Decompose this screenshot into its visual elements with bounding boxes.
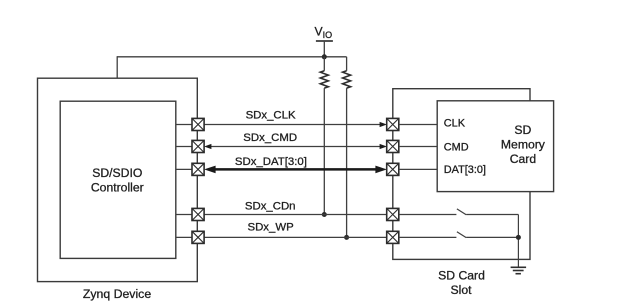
svg-text:SDx_CMD: SDx_CMD [243, 132, 297, 144]
resistor R1 (pull-up on SDx_CDn) [320, 71, 328, 88]
IO pad SDx_CMD (Zynq side) [192, 140, 204, 152]
wire: CMD pad to card [399, 146, 437, 148]
switch SW2 (write protect) blade [457, 232, 466, 238]
SD Memory Card box [437, 101, 553, 192]
junction node R2/SDx_WP [344, 235, 349, 240]
junction node R1/SDx_CDn [322, 212, 327, 217]
wire: SDx_DAT[3:0] thick bus with arrows both ends [213, 168, 378, 171]
wire: SDx_CDn line [204, 214, 387, 216]
wire: WP pad to switch [399, 236, 457, 238]
svg-text:SDx_CLK: SDx_CLK [246, 110, 296, 122]
wire: SDx_CLK line with right arrow [204, 124, 380, 126]
IO pad CMD (slot side) [387, 140, 399, 152]
junction node switches [516, 235, 521, 240]
wire: R2 top lead [346, 57, 348, 71]
svg-text:Card: Card [510, 152, 536, 166]
SD/SDIO Controller box [60, 101, 176, 258]
wire: CLK pad to card [399, 124, 437, 126]
wire: R2 bottom lead down to SDx_WP [346, 88, 348, 237]
wire: DAT pad to card [399, 168, 437, 170]
wire: SDx_WP stub from controller [176, 236, 192, 238]
svg-text:SD/SDIO: SD/SDIO [92, 166, 142, 180]
junction node at V_IO rail [322, 54, 327, 59]
IO pad SDx_CDn (Zynq side) [192, 208, 204, 220]
svg-text:SDx_CDn: SDx_CDn [245, 200, 296, 212]
svg-text:Slot: Slot [450, 283, 472, 297]
wire: SDx_CMD line with arrows both ends [211, 146, 381, 148]
IO pad WP (slot side) [387, 231, 399, 243]
resistor R2 (pull-up on SDx_WP) [343, 71, 351, 88]
wire: R1 top lead [323, 57, 325, 71]
switch SW1 (card detect) blade [457, 209, 466, 215]
wire: SDx_CDn stub from controller [176, 214, 192, 216]
Zynq Device box [38, 78, 198, 281]
IO pad SDx_CLK (Zynq side) [192, 118, 204, 130]
svg-text:SD Card: SD Card [438, 268, 485, 282]
wire: R1 bottom lead down to SDx_CDn [323, 88, 325, 214]
wire: SDx_CLK stub from controller [176, 124, 192, 126]
wire: drop from rail into Zynq box top [116, 56, 118, 78]
svg-text:SDx_WP: SDx_WP [247, 222, 293, 234]
svg-text:CMD: CMD [444, 142, 469, 154]
power rail V_IO bar [316, 40, 333, 42]
wire: SDx_WP line [204, 236, 387, 238]
SD Card Slot box [393, 89, 530, 260]
svg-text:DAT[3:0]: DAT[3:0] [444, 164, 486, 176]
IO pad CLK (slot side) [387, 118, 399, 130]
svg-text:Controller: Controller [91, 181, 144, 195]
svg-text:SD: SD [514, 123, 531, 137]
IO pad SDx_DAT (Zynq side) [192, 163, 204, 175]
wire: V_IO stem down to rail [323, 41, 325, 57]
svg-text:SDx_DAT[3:0]: SDx_DAT[3:0] [235, 156, 307, 168]
IO pad CDn (slot side) [387, 208, 399, 220]
wire: switch to junction [466, 236, 518, 238]
IO pad DAT (slot side) [387, 163, 399, 175]
wire: SDx_DAT stub from controller [176, 168, 192, 170]
svg-text:Memory: Memory [501, 138, 546, 152]
wire: switch to right vertical [466, 214, 518, 216]
IO pad SDx_WP (Zynq side) [192, 231, 204, 243]
wire: vertical down to ground [517, 215, 519, 268]
svg-text:Zynq Device: Zynq Device [83, 287, 152, 301]
ground symbol [511, 267, 526, 273]
wire: SDx_CMD stub from controller [176, 146, 192, 148]
wire: horizontal rail from Zynq drop to right resistor [117, 56, 346, 58]
svg-text:CLK: CLK [444, 118, 466, 130]
wire: CDn pad to switch [399, 214, 457, 216]
